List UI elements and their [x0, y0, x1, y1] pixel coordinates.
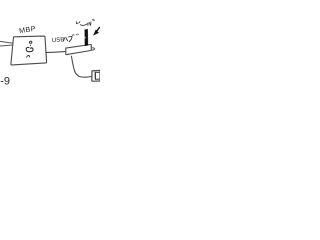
arrow head — [94, 30, 99, 35]
svg-text:USB: USB — [51, 36, 64, 44]
cable entering from left, lower line — [0, 45, 13, 46]
cable entering from left, upper line — [0, 41, 13, 43]
apple logo body — [29, 45, 31, 46]
dakuten of bu — [72, 34, 74, 36]
apple body outline — [26, 47, 33, 51]
dakuten marks — [93, 19, 95, 21]
inner plug line — [95, 72, 100, 79]
extra dakuten mark — [76, 34, 78, 36]
long dash — [80, 24, 87, 26]
svg-text:-9: -9 — [0, 76, 10, 88]
black dongle on hub — [85, 29, 88, 46]
USB hub body — [66, 44, 92, 54]
katakana ha stroke left — [63, 38, 65, 42]
inner plug vertical emphasis — [94, 72, 96, 79]
wire MBP to hub — [45, 52, 65, 53]
laptop MBP box — [11, 36, 47, 65]
label lever/receiver squiggle (top right) — [76, 19, 94, 25]
stroke ba right — [88, 23, 91, 26]
katakana ha stroke right — [66, 37, 68, 41]
wire hub down to small box — [71, 56, 91, 77]
stroke re — [76, 22, 77, 24]
arrow to dongle shaft — [96, 27, 99, 31]
small box bottom right (connector) — [92, 70, 100, 81]
small mark below apple — [27, 55, 30, 57]
apple logo leaf circle — [30, 41, 32, 43]
dongle notch highlight — [85, 37, 86, 39]
stroke ba left — [87, 23, 89, 26]
katakana fu (bu) top bar — [68, 37, 72, 42]
stroke tick — [79, 22, 80, 23]
stroke extra — [90, 22, 92, 25]
stub on hub right end — [92, 48, 95, 50]
